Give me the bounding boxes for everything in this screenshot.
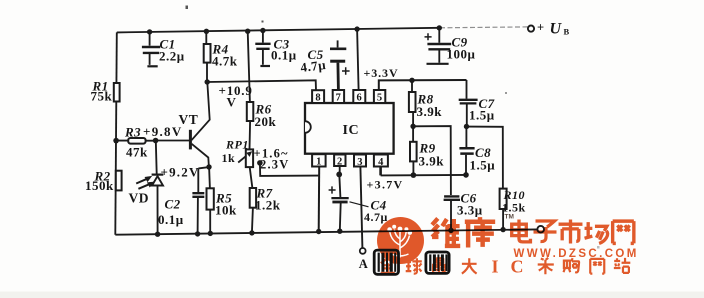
photodiode VD <box>136 141 163 234</box>
svg-text:3.3μ: 3.3μ <box>457 203 483 218</box>
capacitor C1 <box>142 32 160 66</box>
svg-text:4.7μ: 4.7μ <box>364 210 388 224</box>
resistor R3 leads <box>116 140 155 142</box>
svg-text:4: 4 <box>378 157 384 168</box>
pin 3 <box>354 155 366 167</box>
pin numbers <box>315 93 384 168</box>
resistor R5 leads <box>209 167 210 233</box>
resistor R7 <box>250 188 256 208</box>
resistor R5 <box>207 188 214 209</box>
capacitor C9 <box>425 28 452 64</box>
terminal +UB <box>528 26 534 32</box>
wire ground rail (bottom) <box>115 229 537 234</box>
svg-text:VD: VD <box>129 191 150 206</box>
barcode block 2 <box>426 252 449 273</box>
svg-text:8: 8 <box>315 93 321 104</box>
svg-text:0.1μ: 0.1μ <box>158 212 184 227</box>
watermark slogan row <box>381 258 395 273</box>
svg-text:+9.8V: +9.8V <box>143 124 183 139</box>
svg-text:0.1μ: 0.1μ <box>271 48 297 63</box>
scan specks <box>186 6 600 249</box>
capacitor C6 <box>444 196 460 230</box>
wire +10.9V node to pin8 <box>207 80 316 90</box>
pin 1 <box>312 154 326 166</box>
svg-text:3.9k: 3.9k <box>417 104 443 119</box>
svg-text:5: 5 <box>377 93 383 104</box>
potentiometer RP1 wiper head <box>246 151 252 157</box>
barcode block 1 <box>374 250 398 274</box>
IC notch <box>305 121 311 133</box>
wire +3.3V node <box>379 80 467 90</box>
wire +3.7V node <box>379 167 382 176</box>
resistor R4 <box>204 44 211 63</box>
resistor R2 <box>116 171 122 191</box>
svg-text:6: 6 <box>357 93 363 104</box>
pin 8 <box>312 90 324 103</box>
svg-text:R3: R3 <box>124 125 141 140</box>
svg-text:1.5k: 1.5k <box>502 201 526 215</box>
svg-text:VT: VT <box>179 112 199 127</box>
pin 5 <box>374 90 385 103</box>
pin 2 <box>334 155 345 167</box>
svg-text:+3.3V: +3.3V <box>364 66 399 80</box>
wire C7bottom to R10 <box>467 127 503 189</box>
svg-text:+3.7V: +3.7V <box>367 178 404 192</box>
svg-text:U: U <box>550 21 563 38</box>
op-amp IC U1 body <box>305 90 394 167</box>
potentiometer RP1 body <box>246 149 253 167</box>
svg-text:20k: 20k <box>255 114 277 129</box>
wire R6 branch column <box>248 31 253 233</box>
svg-text:150k: 150k <box>85 178 114 193</box>
transistor VT <box>156 82 210 167</box>
svg-text:IC: IC <box>343 123 360 138</box>
svg-text:1k: 1k <box>222 151 236 165</box>
svg-text:2.2μ: 2.2μ <box>159 49 185 64</box>
terminal A <box>360 248 366 254</box>
pin 7 <box>333 90 344 103</box>
svg-text:RP1: RP1 <box>225 138 249 152</box>
resistor R9 leads <box>412 126 414 175</box>
resistor R9 <box>410 142 417 162</box>
wire pin3 to terminal A <box>360 167 362 248</box>
resistor R8 leads <box>412 80 413 126</box>
component boxes <box>114 44 507 210</box>
wire pin6 to rail <box>357 29 359 90</box>
pin 6 <box>353 90 365 103</box>
svg-text:2: 2 <box>337 156 343 167</box>
potentiometer RP1 arrow <box>238 153 249 162</box>
schematic text labels <box>85 21 570 272</box>
wire top supply rail <box>117 28 440 33</box>
resistor R3 <box>128 138 145 144</box>
wire left rail <box>115 32 117 234</box>
svg-text:1.2k: 1.2k <box>255 198 281 213</box>
terminal bottom right <box>537 226 544 233</box>
wire faint rail to +UB terminal <box>440 26 528 29</box>
svg-text:1.5μ: 1.5μ <box>470 158 496 173</box>
resistor R10 <box>500 189 507 209</box>
svg-text:47k: 47k <box>126 145 148 160</box>
capacitor C2 <box>192 167 209 234</box>
capacitor C4 <box>329 167 369 232</box>
svg-text:+: + <box>537 21 545 35</box>
resistor R8 <box>409 92 416 112</box>
watermark (decorative) <box>374 214 639 277</box>
resistor R1 <box>114 83 120 102</box>
svg-text:TM: TM <box>505 214 514 221</box>
svg-text:75k: 75k <box>91 89 113 104</box>
svg-text:C2: C2 <box>165 197 181 212</box>
svg-text:V: V <box>227 95 237 110</box>
svg-text:1: 1 <box>316 157 322 168</box>
capacitor C8 <box>459 127 474 175</box>
svg-text:4.7k: 4.7k <box>212 54 238 69</box>
wire RP1 node to pin1 column <box>260 163 319 176</box>
resistor R4 leads <box>205 31 208 82</box>
svg-text:+9.2V: +9.2V <box>161 165 200 180</box>
capacitor C7 <box>459 80 478 126</box>
svg-text:A: A <box>359 257 369 271</box>
resistor R10 lead <box>502 209 504 230</box>
svg-text:3.9k: 3.9k <box>419 154 445 169</box>
svg-text:3: 3 <box>357 157 363 168</box>
capacitor C3 <box>255 30 270 66</box>
svg-text:10k: 10k <box>215 203 237 218</box>
svg-text:100μ: 100μ <box>447 47 476 62</box>
pin 4 <box>374 155 388 167</box>
wire R9top to C6 <box>412 126 451 195</box>
resistor R6 <box>247 102 254 121</box>
svg-text:2.3V: 2.3V <box>260 158 289 172</box>
watermark big title <box>432 218 460 246</box>
svg-text:B: B <box>564 27 570 37</box>
svg-text:C: C <box>511 257 524 277</box>
wire pin1 to ground <box>318 167 321 232</box>
capacitor C5 <box>330 40 350 90</box>
svg-text:WWW.DZSC.COM: WWW.DZSC.COM <box>514 248 639 260</box>
svg-text:1.5μ: 1.5μ <box>469 108 495 123</box>
svg-text:I: I <box>492 257 499 277</box>
svg-text:7: 7 <box>336 93 342 104</box>
logo circle <box>377 217 424 264</box>
svg-text:4.7μ: 4.7μ <box>300 57 327 75</box>
